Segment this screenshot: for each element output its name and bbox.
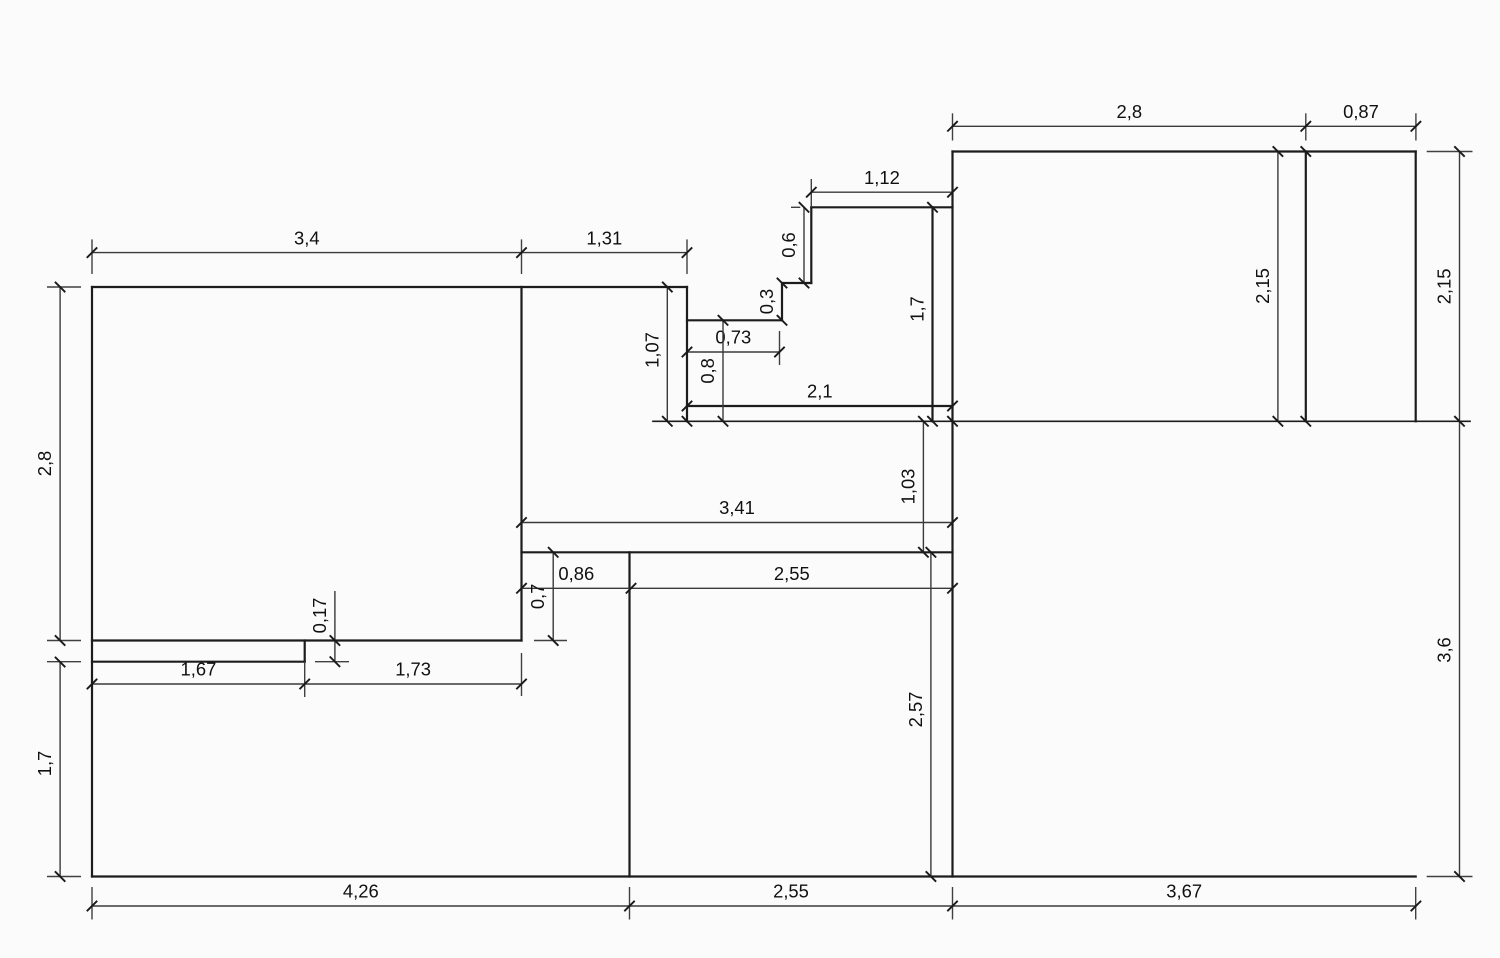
wall stepped shape small horizontal <box>782 282 811 284</box>
wall stepped shape 0,3 vertical <box>781 283 783 320</box>
wall top-right room divider 0,87 <box>1305 152 1307 422</box>
svg-text:0,3: 0,3 <box>756 289 777 315</box>
svg-text:1,7: 1,7 <box>907 296 928 322</box>
svg-text:2,55: 2,55 <box>774 563 810 584</box>
dimension 1,7 left side <box>34 657 81 882</box>
wall stepped shape top edge 1,12 <box>811 206 952 208</box>
svg-text:1,7: 1,7 <box>34 751 55 777</box>
dimension 1,12 <box>806 167 958 207</box>
dimension 4,26 / 2,55 / 3,67 bottom <box>87 881 1421 920</box>
wall middle horizontal 3,41 <box>522 551 953 553</box>
wall stepped shape 1,7 vertical <box>931 207 933 421</box>
svg-text:2,57: 2,57 <box>905 692 926 728</box>
dimension 0,73 <box>682 327 785 365</box>
svg-text:0,87: 0,87 <box>1343 101 1379 122</box>
svg-text:1,03: 1,03 <box>897 469 918 505</box>
dimension 1,67 / 1,73 <box>87 653 527 697</box>
svg-text:0,86: 0,86 <box>558 563 594 584</box>
dimension 0,86 / 2,55 <box>516 563 957 594</box>
dimension 2,8 left side <box>34 282 81 646</box>
dimension 0,3 (ticks on wall) <box>756 278 787 326</box>
svg-text:2,15: 2,15 <box>1434 269 1455 305</box>
svg-text:2,8: 2,8 <box>1117 101 1143 122</box>
dimension 2,15 inner <box>1252 146 1311 426</box>
dimension 2,15 / 3,6 right side <box>1427 146 1473 881</box>
svg-text:3,6: 3,6 <box>1434 637 1455 663</box>
wall left outer vertical <box>91 287 93 877</box>
wall stepped shape 0,73 edge <box>687 319 782 321</box>
dimension 2,1 (on wall) <box>682 381 958 412</box>
svg-text:3,41: 3,41 <box>719 497 755 518</box>
svg-text:1,12: 1,12 <box>864 167 900 188</box>
svg-text:1,73: 1,73 <box>395 659 431 680</box>
svg-text:2,15: 2,15 <box>1252 268 1273 304</box>
dimension 3,4 / 1,31 top-left <box>87 227 692 274</box>
svg-text:0,7: 0,7 <box>527 584 548 610</box>
wall step connector 0,17 <box>304 641 306 662</box>
svg-text:2,8: 2,8 <box>34 451 55 477</box>
wall top-right room right vertical <box>1415 152 1417 422</box>
dimension 0,8 <box>697 315 728 426</box>
wall top-left room top edge <box>92 286 687 288</box>
svg-text:0,6: 0,6 <box>778 232 799 258</box>
wall top-right room top edge <box>953 150 1416 152</box>
dimension 0,7 <box>527 547 567 646</box>
wall top-right room bottom edge line y=421 <box>653 420 1470 422</box>
svg-text:1,31: 1,31 <box>586 227 622 248</box>
dimension 3,41 <box>516 497 957 528</box>
svg-text:3,67: 3,67 <box>1166 881 1202 902</box>
svg-text:2,1: 2,1 <box>807 381 833 402</box>
wall lower-left room top edge <box>92 661 305 663</box>
svg-text:4,26: 4,26 <box>343 881 379 902</box>
dimension 1,07 <box>641 282 672 427</box>
dimension 1,03 <box>897 416 928 557</box>
svg-text:3,4: 3,4 <box>294 227 320 248</box>
wall middle-right tall vertical <box>951 152 953 877</box>
svg-text:1,07: 1,07 <box>641 332 662 368</box>
svg-text:1,67: 1,67 <box>181 659 217 680</box>
wall stepped shape left vertical <box>686 287 688 421</box>
dimension 1,7 middle (on wall) <box>907 202 938 426</box>
dimension 2,8 / 0,87 top-right <box>947 101 1421 141</box>
wall top-left room right vertical <box>520 287 522 641</box>
svg-text:0,17: 0,17 <box>309 598 330 634</box>
svg-text:0,8: 0,8 <box>697 358 718 384</box>
dimension 2,57 <box>905 547 936 882</box>
svg-text:2,55: 2,55 <box>773 881 809 902</box>
svg-text:0,73: 0,73 <box>715 327 751 348</box>
wall stepped shape 0,6 vertical <box>810 207 812 283</box>
tick junction x=952.5 y=421 <box>947 416 957 426</box>
wall bottom middle vertical <box>628 552 630 876</box>
tick junction x=687 y=421 <box>682 416 692 426</box>
wall bottom outer edge <box>92 875 1416 877</box>
dimension 0,17 <box>309 591 349 667</box>
wall stepped shape bottom 2,1 <box>687 405 953 407</box>
wall top-left room bottom edge <box>92 639 522 641</box>
dimension 0,6 <box>778 202 809 288</box>
